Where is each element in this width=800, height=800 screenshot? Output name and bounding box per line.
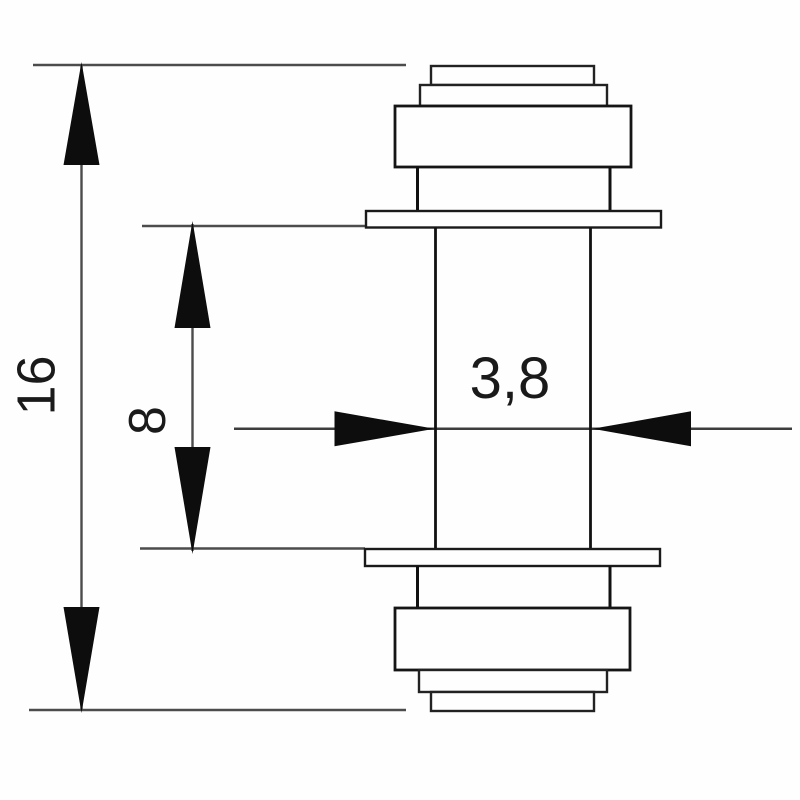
arrowhead 8 bottom <box>175 447 211 554</box>
top extension line (overall height datum, top) <box>33 64 406 67</box>
arrowhead 3,8 right (points left) <box>593 411 692 446</box>
part: bottom cap middle rect <box>419 670 607 692</box>
part: bottom cap small rect <box>431 692 594 711</box>
arrowhead 16 bottom <box>64 607 100 713</box>
part: top neck right edge <box>609 167 612 211</box>
part: bottom neck right edge <box>609 566 612 608</box>
part: axle column left edge <box>434 228 437 550</box>
bottom extension line (overall height datum, bottom) <box>29 709 406 712</box>
part: top neck left edge <box>416 167 419 211</box>
part: axle column right edge <box>589 228 592 550</box>
part: bottom flange <box>365 549 660 566</box>
dimension line 8 (vertical) <box>191 224 193 551</box>
dimension line 3,8 (horizontal) <box>234 428 792 431</box>
extension line 8 top <box>142 225 366 227</box>
part: top cap small rect <box>431 66 594 85</box>
part: bottom cap large rect <box>395 608 630 670</box>
svg-text:16: 16 <box>7 355 67 415</box>
extension line 8 bottom <box>140 547 365 549</box>
part: bottom neck left edge <box>416 566 419 608</box>
dimension line 16 (vertical) <box>80 65 82 710</box>
arrowhead 8 top <box>175 221 211 328</box>
part: top cap middle rect <box>420 85 607 106</box>
part: top flange <box>366 211 661 228</box>
arrowhead 3,8 left (points right) <box>335 411 435 446</box>
part: top cap large rect <box>395 106 631 167</box>
svg-text:8: 8 <box>119 406 177 435</box>
svg-text:3,8: 3,8 <box>470 346 551 411</box>
arrowhead 16 top <box>64 62 100 165</box>
